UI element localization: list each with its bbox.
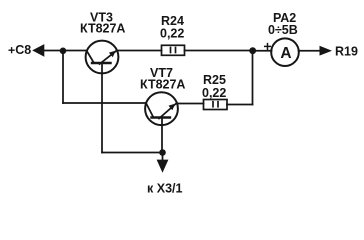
- ammeter PA2: [271, 38, 299, 66]
- svg-text:0,22: 0,22: [202, 86, 226, 100]
- wire junction A to VT3 collector: [63, 50, 87, 52]
- svg-text:A: A: [280, 45, 291, 62]
- wire VT7 emitter to R25: [177, 103, 204, 105]
- transistor VT7: [145, 92, 178, 125]
- junction B (ammeter plus node dot): [249, 47, 256, 54]
- wire +C8 arrow to junction A: [44, 50, 64, 52]
- resistor R24: [162, 45, 185, 55]
- svg-text:R19: R19: [335, 45, 358, 59]
- wire to VT7 collector: [63, 102, 145, 104]
- wire junction A down to VT7 collector level: [62, 51, 64, 103]
- svg-text:КТ827А: КТ827А: [140, 78, 185, 92]
- polarity + of PA2: [265, 44, 271, 50]
- svg-text:0,22: 0,22: [160, 27, 184, 41]
- svg-text:КТ827А: КТ827А: [80, 22, 125, 36]
- node к X3/1: [147, 153, 182, 196]
- svg-text:R25: R25: [203, 73, 226, 87]
- junction C (base node dot): [159, 149, 166, 156]
- wire VT7 base down: [161, 118, 163, 153]
- transistor VT3: [86, 41, 119, 74]
- wire R25 to riser: [227, 104, 253, 106]
- svg-text:С8: С8: [15, 43, 31, 57]
- wire junction B to PA2: [253, 50, 272, 52]
- node +C8: [9, 43, 44, 57]
- wire base bus to junction C: [102, 152, 163, 154]
- resistor R25: [204, 100, 228, 110]
- node R19: [320, 45, 358, 59]
- wire VT3 emitter to R24: [118, 50, 162, 52]
- junction A (collector node dot): [60, 48, 67, 55]
- wire riser R25 up to junction B: [252, 51, 254, 105]
- svg-text:0÷5В: 0÷5В: [268, 23, 298, 37]
- svg-text:к Х3/1: к Х3/1: [147, 182, 182, 196]
- wire PA2 to R19 terminal: [299, 50, 320, 52]
- wire VT3 base down: [101, 63, 103, 153]
- wire R24 to junction B: [185, 50, 254, 52]
